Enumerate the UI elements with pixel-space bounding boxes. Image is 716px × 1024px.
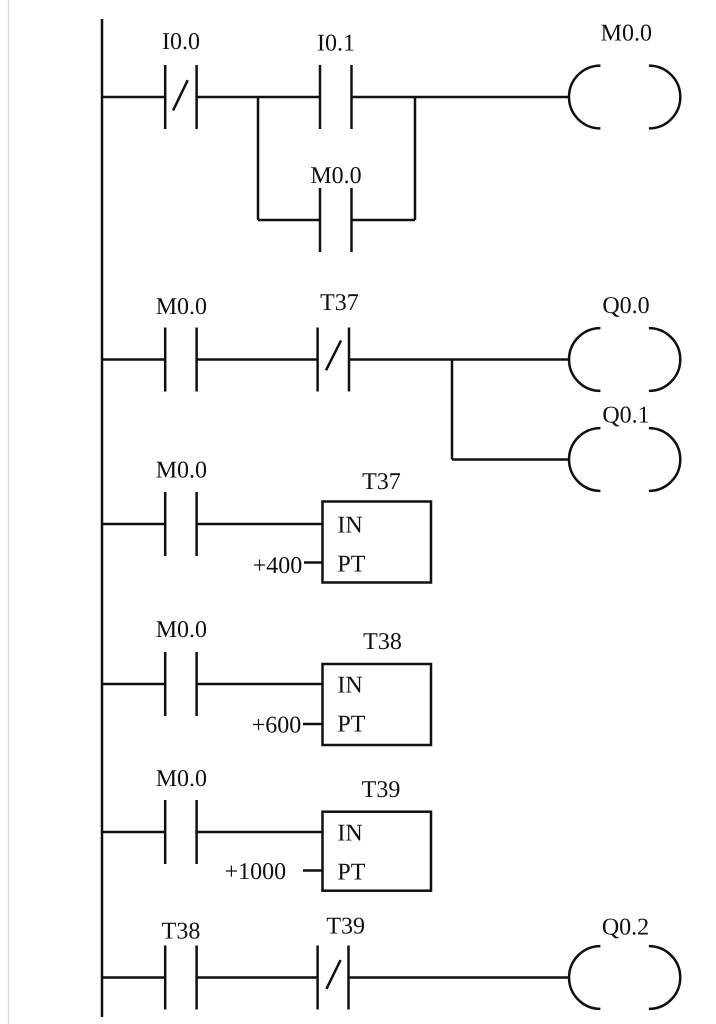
timer box T39 xyxy=(323,812,432,891)
svg-text:T39: T39 xyxy=(362,777,401,803)
svg-text:M0.0: M0.0 xyxy=(310,163,361,189)
svg-text:T37: T37 xyxy=(320,290,359,316)
svg-text:+400: +400 xyxy=(253,553,303,579)
wire PT stub T37 xyxy=(304,561,323,564)
contact M0.0 (rung5) xyxy=(165,800,196,864)
svg-text:T39: T39 xyxy=(326,913,365,939)
svg-text:M0.0: M0.0 xyxy=(156,458,207,484)
svg-text:M0.0: M0.0 xyxy=(156,294,207,320)
wire rung4 rail to M0.0 xyxy=(102,683,165,686)
svg-text:T38: T38 xyxy=(162,919,201,945)
wire rung6 rail to T38 xyxy=(102,976,165,979)
contact T39 (NC, rung6) xyxy=(318,946,349,1010)
contact M0.0 (parallel branch) xyxy=(320,188,352,252)
svg-text:PT: PT xyxy=(337,552,365,578)
svg-text:IN: IN xyxy=(337,673,362,699)
svg-text:T38: T38 xyxy=(363,629,402,655)
wire rung3 rail to M0.0 xyxy=(102,523,165,526)
contact I0.0 (NC) xyxy=(165,65,196,129)
contact M0.0 (rung4) xyxy=(165,652,196,716)
wire branch left vertical xyxy=(257,97,260,220)
wire branch right vertical xyxy=(414,97,417,220)
svg-text:Q0.1: Q0.1 xyxy=(602,403,649,429)
scan edge line xyxy=(8,0,10,1024)
wire T37 to coil Q0.0 xyxy=(349,358,569,361)
contact T37 (NC) xyxy=(318,328,349,392)
svg-text:I0.1: I0.1 xyxy=(317,31,355,57)
svg-text:IN: IN xyxy=(337,513,362,539)
contact M0.0 (rung3) xyxy=(165,492,196,556)
svg-text:PT: PT xyxy=(337,712,365,738)
svg-text:Q0.0: Q0.0 xyxy=(602,293,649,319)
coil M0.0 xyxy=(569,66,680,129)
svg-text:M0.0: M0.0 xyxy=(156,617,207,643)
wire branch bottom right xyxy=(352,219,416,222)
svg-text:T37: T37 xyxy=(362,469,401,495)
left power rail xyxy=(101,19,104,1017)
wire branch vertical to Q0.1 xyxy=(451,360,454,460)
contact I0.1 xyxy=(320,65,352,129)
svg-text:+600: +600 xyxy=(252,712,302,738)
wire M0.0 to timer T39 IN xyxy=(197,831,323,834)
wire PT stub T38 xyxy=(303,723,323,726)
wire M0.0 to timer T37 IN xyxy=(197,523,323,526)
wire T39 to coil Q0.2 xyxy=(349,976,570,979)
contact M0.0 (rung2) xyxy=(165,328,196,392)
timer box T37 xyxy=(323,502,432,583)
wire M0.0 to T37 contact xyxy=(197,358,318,361)
coil Q0.2 xyxy=(569,946,680,1009)
wire rung5 rail to M0.0 xyxy=(102,831,165,834)
wire I0.1 to coil M0.0 xyxy=(352,96,570,99)
wire PT stub T39 xyxy=(303,869,323,872)
svg-text:I0.0: I0.0 xyxy=(162,29,200,55)
svg-text:+1000: +1000 xyxy=(225,859,287,885)
svg-text:IN: IN xyxy=(337,821,362,847)
wire M0.0 to timer T38 IN xyxy=(197,683,323,686)
svg-text:PT: PT xyxy=(337,860,365,886)
wire branch bottom left xyxy=(258,219,320,222)
wire rung1 rail to I0.0 xyxy=(102,96,165,99)
svg-text:M0.0: M0.0 xyxy=(156,766,207,792)
wire rung2 rail to M0.0 xyxy=(102,358,165,361)
timer box T38 xyxy=(323,664,432,745)
contact T38 (rung6) xyxy=(165,946,196,1010)
coil Q0.1 xyxy=(569,428,680,491)
wire T38 to T39 contact xyxy=(197,976,318,979)
svg-text:M0.0: M0.0 xyxy=(601,21,652,47)
coil Q0.0 xyxy=(569,328,680,391)
wire to coil Q0.1 xyxy=(452,458,569,461)
wire I0.0 to I0.1 xyxy=(197,96,320,99)
svg-text:Q0.2: Q0.2 xyxy=(602,914,649,940)
